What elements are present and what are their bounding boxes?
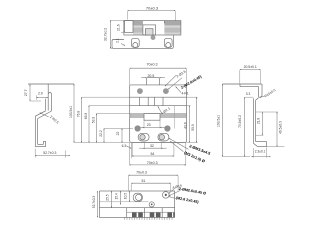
svg-text:103.5±1: 103.5±1 [217,115,221,127]
svg-text:52.7±0.3: 52.7±0.3 [92,196,96,209]
svg-text:70±0.3: 70±0.3 [146,5,159,10]
svg-text:4-R1: 4-R1 [182,91,189,95]
svg-text:53.9: 53.9 [91,117,95,124]
svg-text:22: 22 [116,132,120,136]
svg-text:51: 51 [142,179,146,183]
svg-text:103.5±1: 103.5±1 [69,106,73,118]
svg-text:21.8: 21.8 [256,118,260,124]
svg-text:27.7: 27.7 [24,89,28,96]
svg-text:20.5: 20.5 [147,74,154,78]
svg-text:2.3±0.1: 2.3±0.1 [255,149,266,153]
svg-text:25.5: 25.5 [106,194,110,200]
svg-text:32: 32 [150,144,154,148]
svg-text:70±0.3: 70±0.3 [147,161,158,165]
svg-text:70±0.3: 70±0.3 [136,171,147,175]
svg-text:52.7±0.3: 52.7±0.3 [43,151,56,155]
svg-text:54: 54 [150,152,154,156]
svg-text:70±0.3: 70±0.3 [147,62,158,66]
svg-text:3.3: 3.3 [246,92,251,96]
svg-text:73.9±0.2: 73.9±0.2 [238,115,242,128]
svg-text:6.3: 6.3 [122,144,127,148]
svg-text:76.8: 76.8 [76,111,80,118]
svg-text:32.7±0.2: 32.7±0.2 [104,28,108,41]
svg-text:49.5±0.3: 49.5±0.3 [278,121,282,134]
svg-text:10.5: 10.5 [124,193,128,199]
svg-text:23: 23 [147,123,151,127]
svg-text:21.6: 21.6 [117,24,121,31]
svg-text:22.2: 22.2 [99,130,103,137]
svg-text:15.4: 15.4 [115,193,119,199]
svg-text:55.9: 55.9 [191,124,195,131]
svg-text:69.9: 69.9 [84,113,88,120]
svg-text:2.9: 2.9 [38,91,43,95]
svg-text:20.5±0.1: 20.5±0.1 [244,65,257,69]
svg-text:2.1: 2.1 [116,38,120,43]
svg-text:43.6: 43.6 [184,122,188,129]
